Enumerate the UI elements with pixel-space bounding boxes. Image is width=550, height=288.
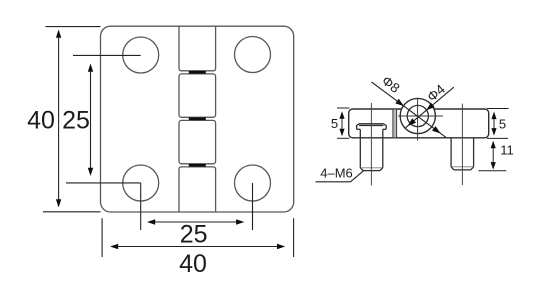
arrow 40h left <box>110 244 118 249</box>
phi8 leader line <box>372 82 447 138</box>
arrow 40v bottom <box>56 199 61 207</box>
ext top hole center <box>73 54 141 56</box>
phi4 arrow near <box>426 103 434 111</box>
ext hole BR center down <box>252 183 254 230</box>
screw shaft left <box>360 129 383 170</box>
dim line 40 horizontal <box>113 246 282 248</box>
arrow 11 up <box>491 141 496 149</box>
svg-text:25: 25 <box>180 221 208 249</box>
ext plate right edge down <box>293 218 295 257</box>
dim line 25 horizontal <box>150 221 241 223</box>
arrow 5L up <box>339 111 344 119</box>
arrow 40h right <box>277 244 285 249</box>
leader 4-M6 underline <box>316 181 351 183</box>
knuckle segment 2 <box>179 74 216 117</box>
arrow 25h left <box>147 219 155 224</box>
knuckle inner circle <box>407 105 428 126</box>
svg-text:40: 40 <box>27 107 55 135</box>
knuckle gap bar 3 <box>189 164 206 167</box>
ext hole BL center down <box>140 183 142 230</box>
phi4 leader line <box>406 87 454 128</box>
ext bottom hole center <box>66 182 141 184</box>
hole top-left <box>123 37 159 73</box>
arrow 25v top <box>88 64 93 72</box>
dim line 40 vertical <box>58 33 60 204</box>
phi8 arrow near <box>395 99 404 106</box>
phi4 arrow far <box>408 118 416 126</box>
arrow 11 down <box>491 162 496 170</box>
svg-text:11: 11 <box>500 143 514 158</box>
knuckle gap bar 2 <box>189 117 206 120</box>
svg-text:4–M6: 4–M6 <box>320 166 353 181</box>
knuckle segment 4 <box>179 167 216 212</box>
screw centerline left <box>370 103 372 185</box>
arrow 25h right <box>236 219 244 224</box>
arrow 5R down <box>491 128 496 136</box>
extension + dimension lines of front view <box>43 27 294 257</box>
arrow 5L down <box>339 129 344 137</box>
hole top-right <box>235 37 271 73</box>
arrow 5R up <box>491 112 496 120</box>
dim 5 left: extensions <box>337 108 349 138</box>
leaf joint band <box>393 109 397 138</box>
hinge plate outline <box>101 26 294 212</box>
crosshair horizontal <box>398 115 443 117</box>
leaf bar outline <box>349 109 489 138</box>
ext plate left edge down <box>101 218 103 257</box>
svg-text:40: 40 <box>179 250 207 278</box>
hole bottom-right <box>235 165 271 201</box>
arrow 40v top <box>56 30 61 38</box>
stud centerline right <box>461 104 463 185</box>
leader 4-M6 diagonal <box>351 170 365 182</box>
dim 11: line and bottom extension <box>479 142 507 171</box>
arrow 25v bottom <box>88 168 93 176</box>
svg-text:25: 25 <box>62 107 90 135</box>
knuckle segment 1 <box>179 26 216 71</box>
svg-text:5: 5 <box>331 116 338 131</box>
knuckle segment 3 <box>179 120 216 163</box>
svg-text:5: 5 <box>499 117 506 132</box>
dim 5 right: extensions <box>487 109 509 139</box>
ext top edge <box>46 26 101 28</box>
knuckle outer circle <box>400 98 435 133</box>
phi8 arrow far <box>432 126 441 133</box>
crosshair vertical <box>417 98 419 141</box>
stud right <box>451 138 474 170</box>
hole bottom-left <box>123 165 159 201</box>
knuckle gap bar 1 <box>189 71 206 74</box>
ext bottom edge <box>43 211 101 213</box>
dim line 25 vertical <box>90 67 92 173</box>
screw head cap <box>357 124 387 130</box>
